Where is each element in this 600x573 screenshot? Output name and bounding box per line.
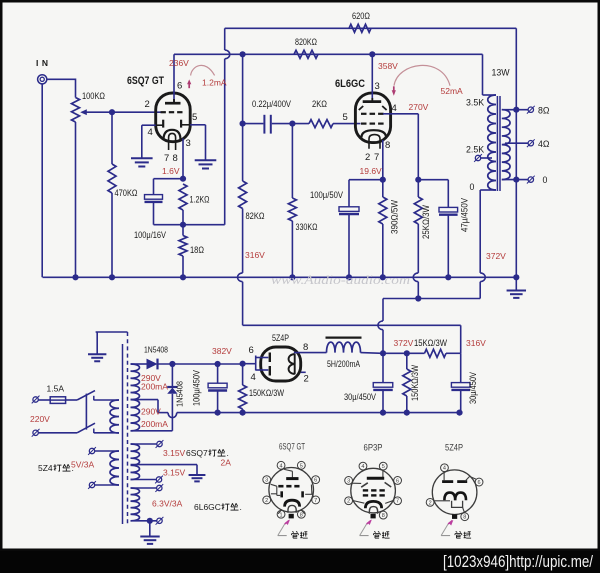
label 2K (312, 99, 327, 109)
diode D1 1N5408 (147, 359, 158, 370)
svg-text:.: . (240, 502, 242, 512)
rail junction 30u-1 (380, 410, 386, 416)
pinout 6P3P key and pointer (360, 514, 376, 536)
label 6L6GC heater (194, 502, 242, 512)
svg-text:0.22μ/400V: 0.22μ/400V (252, 99, 291, 109)
resistor 2K grid stopper (309, 120, 333, 128)
resistor 820K (294, 50, 318, 58)
svg-text:8: 8 (173, 153, 178, 164)
svg-text:3: 3 (186, 138, 191, 149)
svg-text:4: 4 (148, 127, 153, 138)
pinout 6SQ7 pins (263, 461, 320, 518)
wire HV bottom to D2 (131, 430, 173, 432)
T1 heater winding 6.3V (131, 488, 140, 521)
node plate V1 (240, 51, 246, 57)
wire coupling cap right (272, 123, 293, 125)
svg-text:4: 4 (361, 464, 364, 470)
V3 pin 2 stub (301, 371, 306, 373)
terminal 220V bottom (32, 429, 40, 437)
svg-text:1.5A: 1.5A (47, 384, 65, 394)
svg-text:.: . (227, 448, 229, 458)
label 15K/3W (414, 338, 447, 348)
pinout 6SQ7 internals (271, 469, 314, 513)
label 290V lower (141, 407, 161, 417)
wire NFB top (225, 27, 517, 29)
label 6L6GC (335, 78, 365, 90)
ground at shield (88, 354, 106, 361)
node rectifier output (240, 361, 246, 367)
svg-text:2A: 2A (221, 458, 232, 468)
label 1.2K (190, 195, 210, 205)
V2 screen wire pin4 (383, 114, 418, 180)
cap bottom lead (153, 202, 155, 225)
svg-text:6SQ7 GT: 6SQ7 GT (279, 442, 305, 452)
terminal 8 ohm (527, 106, 535, 114)
pinout 6P3P pins (345, 462, 402, 519)
node feedback junction (180, 222, 186, 228)
wire input to pot (47, 79, 76, 97)
svg-text:5V/3A: 5V/3A (71, 460, 94, 470)
V2 heater (369, 135, 380, 149)
rail junction 150K-2 (404, 410, 410, 416)
wire hop screen at bus (413, 273, 418, 282)
label 25K/3W (421, 205, 431, 239)
svg-text:8: 8 (385, 140, 390, 151)
wire V2 plate to OPT (483, 54, 497, 95)
terminal 5V bottom (88, 481, 119, 489)
svg-text:6: 6 (177, 81, 182, 92)
wire switch to primary bottom (94, 432, 119, 434)
svg-text:2: 2 (365, 152, 370, 163)
pinout 5Z4P title (445, 443, 463, 453)
svg-text:200mA: 200mA (141, 419, 168, 429)
label 5V/3A (71, 460, 94, 470)
V1 left diode plate (156, 120, 164, 128)
resistor 15K/3W (425, 349, 447, 357)
resistor 82K plate load (239, 124, 247, 273)
switch pole 2 blade (77, 423, 95, 433)
svg-text:150KΩ/3W: 150KΩ/3W (410, 365, 420, 401)
svg-text:5: 5 (382, 464, 385, 470)
svg-text:7: 7 (314, 498, 317, 504)
wire 316V riser (460, 325, 462, 353)
wire 316V line (243, 324, 461, 326)
label 1.6V (162, 166, 180, 176)
svg-text:6: 6 (249, 345, 254, 356)
V1 grid dashes (161, 111, 183, 113)
pinout 6P3P shell (351, 468, 396, 513)
capacitor 30u/450V first (373, 353, 393, 412)
label 200mA upper (141, 382, 168, 392)
switch pole 1 blade (77, 391, 95, 400)
terminal 5V top (88, 447, 119, 455)
svg-text:5H/200mA: 5H/200mA (327, 359, 360, 369)
label 316V psu (466, 338, 486, 348)
capacitor 30u/450V second (451, 353, 470, 412)
label 4 ohm (538, 139, 550, 149)
svg-text:15KΩ/3W: 15KΩ/3W (414, 338, 447, 348)
wire to fuse (39, 399, 51, 401)
label 1N5408 D2 (175, 381, 185, 407)
label 316V upper (245, 250, 265, 260)
label 100u/16V (134, 230, 166, 240)
label IN (36, 58, 49, 68)
svg-text:316V: 316V (245, 250, 265, 260)
pinout 6P3P title (364, 443, 383, 453)
choke 5H/200mA (326, 338, 362, 353)
svg-text:372V: 372V (486, 251, 506, 261)
wire cathode to bypass cap (154, 179, 184, 195)
bus junction at pot (72, 274, 78, 280)
V2 beam plates (359, 106, 387, 110)
wire fuse to switch (66, 399, 78, 401)
svg-text:270V: 270V (409, 102, 429, 112)
pot wiper arrow (80, 109, 112, 115)
label 47u/450V (460, 198, 470, 232)
node wiper junction (109, 109, 115, 115)
wire HV center tap (131, 400, 159, 413)
pinout 5Z4P internals (434, 471, 476, 512)
pot bottom lead (75, 122, 77, 277)
resistor 330K grid leak (288, 124, 296, 278)
svg-text:5: 5 (343, 112, 348, 123)
svg-text:8: 8 (300, 512, 303, 518)
svg-text:220V: 220V (30, 414, 50, 424)
bus junction at 470K (109, 274, 115, 280)
V1 pin 5 label (192, 112, 197, 123)
V1 cathode lead pin3 (182, 139, 184, 179)
svg-text:3: 3 (375, 81, 380, 92)
svg-text:8Ω: 8Ω (538, 106, 550, 116)
resistor 25K/3W screen (414, 180, 422, 273)
V2 screen dashes (361, 113, 384, 115)
svg-text:316V: 316V (466, 338, 486, 348)
svg-text:13W: 13W (492, 68, 511, 78)
bottom bar (0, 551, 600, 573)
wire plate rail (174, 53, 483, 55)
wire 372V rail top (383, 298, 480, 300)
label 6SQ7 GT (127, 75, 164, 87)
rect V3 5Z4P envelope (261, 347, 301, 381)
ground at V1 pin4 (131, 158, 153, 166)
svg-text:0: 0 (470, 182, 475, 192)
svg-text:0: 0 (543, 175, 548, 185)
svg-text:6P3P: 6P3P (364, 443, 383, 453)
node 8 ohm tap (513, 107, 519, 113)
label 3.5K (466, 98, 484, 108)
pinout 6P3P internals (352, 470, 394, 514)
wire diode to B+ node (158, 363, 243, 365)
T1 5V winding (110, 451, 119, 485)
resistor 150K/3W bleeder (239, 364, 247, 413)
node plate V2 (369, 51, 375, 57)
OPT secondary winding (502, 110, 510, 180)
wire wiper to grid pin2 (112, 111, 161, 113)
V3 pin 2 label (304, 374, 309, 385)
node 372V (380, 350, 386, 356)
V1 right diode plate (181, 120, 190, 128)
wire coupling cap left (243, 123, 264, 125)
bus junction at 330K (289, 274, 295, 280)
svg-text:6SQ7 GT: 6SQ7 GT (127, 75, 164, 87)
fuse 1.5A (50, 397, 65, 404)
label 5Z4P schematic (272, 333, 289, 343)
input terminal IN (38, 75, 47, 84)
svg-text:8: 8 (463, 515, 466, 521)
label 100u/50V (310, 190, 343, 200)
svg-text:2: 2 (145, 99, 150, 110)
svg-text:7: 7 (164, 153, 169, 164)
svg-text:6L6GC: 6L6GC (194, 502, 221, 512)
node D2 cathode (169, 361, 175, 367)
V2 cathode arc (362, 130, 387, 137)
label 3.15V top (163, 448, 186, 458)
terminal 0 (527, 176, 535, 184)
label 82K (246, 211, 265, 221)
svg-text:7: 7 (396, 499, 399, 505)
V3 pin 6 label (249, 345, 254, 356)
svg-text:25KΩ/3W: 25KΩ/3W (421, 205, 431, 239)
wire 8 ohm tap (502, 109, 528, 111)
svg-text:www.Audio-audio.com: www.Audio-audio.com (271, 273, 410, 287)
label 2.5K (466, 145, 484, 155)
V2 pin 3 label (375, 81, 380, 92)
V2 plate bar (363, 100, 382, 103)
transformer T1 primary 220V (110, 400, 119, 433)
svg-text:6L6GC: 6L6GC (335, 78, 365, 90)
wire cap to cathode resistor bottom (154, 224, 184, 226)
svg-text:470KΩ: 470KΩ (115, 188, 138, 198)
wire 220V bottom to switch (39, 432, 78, 434)
svg-text:1.6V: 1.6V (162, 166, 180, 176)
terminal 6.3 top (131, 484, 164, 492)
svg-text:4: 4 (443, 466, 446, 472)
svg-text:200mA: 200mA (141, 382, 168, 392)
svg-text:18Ω: 18Ω (190, 245, 204, 255)
resistor 18 ohm (179, 225, 187, 278)
wire grid to 2K (292, 123, 309, 125)
label 150K/3W second (410, 365, 420, 401)
resistor 150K/3W second (403, 353, 411, 412)
svg-text:620Ω: 620Ω (352, 11, 370, 21)
label 30u second (468, 372, 478, 404)
diode D2 1N5408 vertical (167, 364, 177, 431)
resistor 620 ohm (349, 24, 371, 32)
V3 filament (289, 354, 295, 375)
ground at heater CT (189, 475, 206, 481)
svg-text:30μ/450V: 30μ/450V (344, 392, 376, 402)
terminal 3.15 top (131, 440, 164, 448)
wire feedback node (183, 224, 225, 226)
OPT primary winding 3.5K (488, 95, 496, 190)
svg-text:19.6V: 19.6V (360, 166, 383, 176)
svg-text:4: 4 (280, 463, 283, 469)
svg-text:6: 6 (396, 478, 399, 484)
svg-text:8: 8 (382, 513, 385, 519)
label 1.2mA (202, 78, 227, 88)
wire HV top to diode (131, 363, 147, 365)
wire 15K to 316V (446, 352, 461, 354)
label 390/5W (390, 200, 400, 234)
V1 pin 6 label (177, 81, 182, 92)
pinout 5Z4P key and pointer (441, 514, 457, 535)
label 100K (82, 91, 105, 101)
label 6SQ7 heater (186, 448, 229, 458)
wire 4 ohm tap (505, 142, 528, 144)
label 470K (115, 188, 138, 198)
label 30u first (344, 392, 376, 402)
node cathode V2 (380, 177, 386, 183)
label 18 ohm (190, 245, 204, 255)
pinout 6SQ7 title (279, 442, 305, 452)
svg-text:820KΩ: 820KΩ (295, 37, 317, 47)
svg-text:6: 6 (314, 478, 317, 484)
label 290V upper (141, 373, 161, 383)
node screen feed (415, 295, 421, 301)
label 0 secondary (543, 175, 548, 185)
wire cathode to cap (349, 179, 383, 181)
node 150K top (404, 350, 410, 356)
watermark (271, 273, 410, 287)
label 236V (169, 58, 189, 68)
svg-text:1N5408: 1N5408 (175, 381, 185, 407)
svg-text:2KΩ: 2KΩ (312, 99, 327, 109)
svg-text:1: 1 (280, 512, 283, 518)
label 5H/200mA (327, 359, 360, 369)
node 0 tap (513, 177, 519, 183)
label 0 primary (470, 182, 475, 192)
pinout 5Z4P key label (455, 531, 471, 538)
svg-text:6.3V/3A: 6.3V/3A (152, 499, 183, 509)
T1 heater winding 3.15+3.15 (131, 444, 140, 480)
svg-text:330KΩ: 330KΩ (296, 222, 318, 232)
label 1N5408 D1 (144, 345, 168, 355)
V3 pin 4 label (251, 372, 256, 383)
wire hop OPT at bus (480, 273, 485, 282)
svg-text:382V: 382V (212, 346, 232, 356)
svg-text:372V: 372V (394, 338, 414, 348)
label 372V psu (394, 338, 414, 348)
svg-text:5: 5 (300, 463, 303, 469)
svg-text:100KΩ: 100KΩ (82, 91, 105, 101)
svg-text:I N: I N (36, 58, 49, 68)
OPT core (497, 96, 500, 191)
wire NFB left drop (224, 28, 226, 224)
svg-text:358V: 358V (378, 61, 398, 71)
wire NFB right drop (515, 28, 517, 109)
svg-text:1.2KΩ: 1.2KΩ (190, 195, 210, 205)
svg-text:100μ/16V: 100μ/16V (134, 230, 166, 240)
V2 cathode lead pin8 (382, 140, 384, 180)
switch pole 1 contact (93, 396, 95, 401)
V3 plate bars (269, 353, 271, 376)
V2 pin labels 2 7 (365, 152, 379, 163)
svg-text:100μ/450V: 100μ/450V (192, 370, 202, 406)
V1 pin5 wire to ground (190, 125, 205, 161)
V3 pin 8 wire (294, 352, 327, 354)
svg-text:3.5K: 3.5K (466, 98, 484, 108)
svg-text:47μ/450V: 47μ/450V (460, 198, 470, 232)
label 200mA lower (141, 419, 168, 429)
svg-text:7: 7 (374, 152, 379, 163)
label 330K (296, 222, 318, 232)
resistor 470K grid leak (108, 112, 116, 277)
wire B+ rail (383, 352, 425, 354)
wire choke to 372V node (361, 352, 384, 355)
svg-text:236V: 236V (169, 58, 189, 68)
svg-text:.: . (72, 463, 74, 473)
svg-text:3: 3 (265, 478, 268, 484)
svg-text:100μ/50V: 100μ/50V (310, 190, 343, 200)
pinout 6P3P key label (373, 531, 389, 538)
svg-text:6SQ7: 6SQ7 (186, 448, 208, 458)
svg-text:5Z4P: 5Z4P (445, 443, 463, 453)
label 52mA (441, 86, 464, 96)
svg-text:8: 8 (303, 342, 308, 353)
wire hop 372V over 316V line (378, 321, 383, 330)
ground at V1 pin5 (195, 160, 217, 168)
pinout 6SQ7 key and pointer (278, 514, 294, 536)
label 3.15V bottom (163, 468, 186, 478)
svg-text:5Z4: 5Z4 (38, 463, 53, 473)
wire 316V riser (242, 282, 244, 326)
terminal 4 ohm (527, 139, 535, 147)
resistor 390/5W cathode (379, 180, 387, 278)
V3 plate bracket (256, 356, 269, 371)
V1 pin4 wire to ground (142, 125, 156, 158)
node V2 grid junction (289, 121, 295, 127)
OPT primary bottom lead (480, 190, 496, 273)
ground at bus right (507, 277, 526, 298)
wire screen to 47u (418, 179, 448, 181)
node 6.3V ground (147, 518, 153, 524)
svg-text:6: 6 (478, 480, 481, 486)
node cathode junction (180, 176, 186, 182)
wire hop at plate wire (225, 50, 230, 59)
V1 heater (169, 133, 176, 150)
label 8 ohm (538, 106, 550, 116)
pinout 5Z4P pins (426, 464, 483, 521)
svg-text:3.15V: 3.15V (163, 448, 186, 458)
psu ground rail (158, 412, 460, 414)
capacitor 100u/16V (145, 195, 163, 202)
V1 plate bar (165, 102, 181, 105)
capacitor 47u/450V (439, 180, 458, 278)
V1 cathode arc (164, 130, 181, 140)
label 100u/450V psu (192, 370, 202, 406)
svg-text:1N5408: 1N5408 (144, 345, 168, 355)
label 0.22u/400V (252, 99, 291, 109)
rail junction 150K (240, 410, 246, 416)
switch gang bar (85, 394, 87, 430)
V2 grid dashes (361, 122, 384, 124)
wire OPT to 372V rail (479, 282, 481, 299)
svg-text:[1023x946]http://upic.me/: [1023x946]http://upic.me/ (443, 552, 593, 571)
svg-text:1.2mA: 1.2mA (202, 78, 227, 88)
V1 plate lead pin6 (173, 54, 175, 103)
wire 0 tap to ground bus (515, 110, 517, 278)
svg-text:2: 2 (429, 500, 432, 506)
pinout 6SQ7 shell (269, 468, 314, 513)
label 620 ohm (352, 11, 370, 21)
switch pole 2 contact (93, 429, 95, 434)
label 358V (378, 61, 398, 71)
V2 pin 5 label (343, 112, 348, 123)
svg-text:30μ/450V: 30μ/450V (468, 372, 478, 404)
arrow 1.2mA (187, 65, 215, 88)
T1 shield ground wire (96, 332, 128, 354)
tube V2 6L6GC envelope (355, 93, 390, 143)
